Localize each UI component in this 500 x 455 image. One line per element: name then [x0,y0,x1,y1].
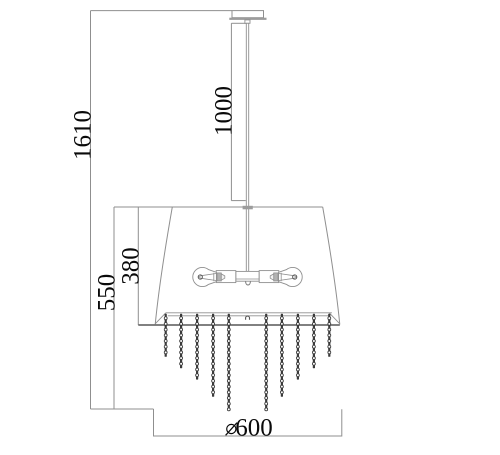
chain 10 [328,314,331,357]
left socket box [216,271,236,283]
right socket box [259,271,279,283]
suspension rod [246,23,248,271]
dimension line 380 (vertical) [137,207,139,325]
dimension line 1610 (vertical) [90,11,92,409]
svg-text:1610: 1610 [70,110,97,160]
knob under central box [246,281,251,285]
extension line bottom (lowest chain level) [91,408,154,410]
extension line shade top / shade top edge [114,206,323,208]
collar at shade top [243,206,253,210]
svg-text:550: 550 [93,274,120,312]
extension line top (ceiling level) [91,10,233,12]
svg-text:600: 600 [235,414,273,441]
right bulb neck base line [280,273,282,281]
extension line 1000 top [231,22,245,24]
center hook on rim [246,316,250,320]
right bulb base in holder [274,273,278,281]
rim left diagonal cut [155,313,166,324]
dimension line 1000 (vertical, rod) [230,23,232,200]
ceiling mounting plate [229,18,266,20]
lamp arm central box [236,271,259,281]
chain 6 [265,314,268,411]
left bulb glass [193,267,217,286]
shade right edge [323,207,340,325]
rim band top line [166,312,332,314]
chain 5 [227,314,230,411]
right bulb glass [279,267,303,286]
chain 4 [212,314,215,397]
shade left edge [155,207,172,325]
extension line 1000 bottom [231,200,245,202]
dimension line diameter 600 (bottom, with risers) [154,409,342,436]
left bulb filament [198,273,217,280]
chain 3 [196,314,199,380]
chain 7 [280,314,283,397]
left bulb neck base line [213,273,215,281]
dimension line 550 (vertical) [113,207,115,409]
chain 2 [180,314,183,368]
chain 1 [164,314,167,357]
svg-text:1000: 1000 [211,86,238,136]
right bulb filament [278,273,297,280]
ceiling canopy box [232,11,264,18]
rim band bottom line [168,315,329,317]
left bulb base in holder [217,273,221,281]
shade bottom edge + 380 extension [138,324,339,326]
rim right diagonal cut [329,313,340,324]
chain 8 [296,314,299,380]
svg-text:380: 380 [118,247,145,285]
dimension text diameter 600 [226,414,273,441]
chain 9 [312,314,315,368]
rod connector below plate [245,20,250,23]
